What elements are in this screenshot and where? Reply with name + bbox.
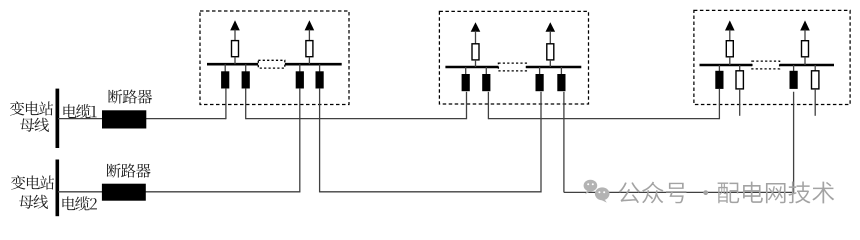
RMU1 bus-tie (dotted box) xyxy=(258,60,285,68)
RMU2 closed switch (black) S2-3 xyxy=(539,67,541,75)
RMU2 bus-tie (dotted box) xyxy=(498,63,526,71)
label 断路器 (bottom) xyxy=(107,163,151,177)
busbar B1 (变电站母线 top) xyxy=(56,89,60,148)
RMU2 feeder arrow 1 xyxy=(471,22,481,32)
RMU1 feeder fuse 2 (white box) xyxy=(306,41,313,57)
wire ring segment RMU1 to RMU2 (bottom) xyxy=(320,92,541,192)
RMU3 open/spare switch (white) S3-4 xyxy=(814,65,816,72)
label 母线 (bottom busbar) xyxy=(19,195,48,209)
breaker QF2 (断路器) xyxy=(102,184,146,201)
watermark text 公众号·配电网技术 xyxy=(619,182,835,204)
RMU3 feeder fuse 2 (white box) xyxy=(802,41,809,57)
wire drop RMU1 S1-4 down xyxy=(319,88,321,192)
wire ring segment RMU1 to RMU2 (top) xyxy=(246,118,467,120)
RMU1 closed switch (black) S1-1 xyxy=(224,64,226,72)
RMU3 feeder arrow 2 xyxy=(800,20,810,30)
RMU2 bus section B xyxy=(526,66,581,69)
wire drop RMU2 S2-1 xyxy=(466,92,468,119)
RMU2 closed switch (black) S2-4 xyxy=(560,67,562,75)
wire ring segment RMU2 to RMU3 (bottom) xyxy=(564,92,794,193)
wire drop RMU1 S1-1 to cable1 xyxy=(225,88,227,119)
RMU3 feeder arrow 1 xyxy=(725,20,735,30)
RMU3 enclosure (dashed box) xyxy=(694,10,850,104)
RMU3 closed switch (black) S3-1 xyxy=(718,65,720,72)
label 电缆1 xyxy=(63,104,96,118)
RMU3 bus section B xyxy=(780,64,834,67)
RMU2 bus section A xyxy=(445,66,498,69)
RMU2 closed switch (black) S2-1 xyxy=(465,67,467,75)
wire cable1 from busbar B1 xyxy=(58,118,226,120)
label 母线 (top busbar) xyxy=(20,118,49,132)
RMU2 closed switch (black) S2-2 xyxy=(485,67,487,75)
spare stub RMU3 S3-4 xyxy=(814,89,816,116)
RMU1 bus section B xyxy=(285,63,342,66)
RMU1 feeder arrow 1 xyxy=(230,20,240,30)
RMU3 bus section A xyxy=(700,64,752,67)
RMU1 enclosure (dashed box) xyxy=(200,11,349,105)
label 变电站 (bottom busbar) xyxy=(11,175,54,189)
RMU2 enclosure (dashed box) xyxy=(439,11,588,104)
spare stub RMU3 S3-2 xyxy=(739,89,741,116)
RMU2 feeder arrow 2 xyxy=(546,22,556,32)
RMU2 feeder fuse 1 (white box) xyxy=(472,44,479,60)
busbar B2 (变电站母线 bottom) xyxy=(56,160,60,217)
RMU1 closed switch (black) S1-4 xyxy=(319,64,321,72)
RMU2 feeder fuse 2 (white box) xyxy=(547,44,554,60)
wire drop RMU2 S2-2 down xyxy=(487,92,489,119)
wire ring segment RMU2 to RMU3 (top) xyxy=(488,118,719,120)
RMU1 feeder arrow 2 xyxy=(305,20,315,30)
watermark WeChat logo xyxy=(584,180,610,203)
RMU3 bus-tie (dotted box) xyxy=(752,61,780,69)
wire drop RMU1 S1-3 to cable2 xyxy=(299,88,301,192)
RMU1 bus section A xyxy=(207,63,258,66)
RMU1 closed switch (black) S1-2 xyxy=(245,64,247,72)
RMU1 feeder fuse 1 (white box) xyxy=(232,41,239,57)
wire drop RMU1 S1-2 down xyxy=(245,88,247,119)
wire cable2 from busbar B2 xyxy=(58,191,300,193)
RMU3 open/spare switch (white) S3-2 xyxy=(739,65,741,72)
wire drop RMU3 S3-1 to top ring xyxy=(718,89,720,119)
RMU1 closed switch (black) S1-3 xyxy=(299,64,301,72)
RMU3 feeder fuse 1 (white box) xyxy=(726,41,733,57)
label 电缆2 xyxy=(62,196,97,210)
breaker QF1 (断路器) xyxy=(102,110,146,128)
label 变电站 (top busbar) xyxy=(10,101,53,115)
label 断路器 (top) xyxy=(108,89,152,103)
RMU3 closed switch (black) S3-3 xyxy=(793,65,795,72)
wire drop RMU2 S2-4 down xyxy=(563,92,565,193)
